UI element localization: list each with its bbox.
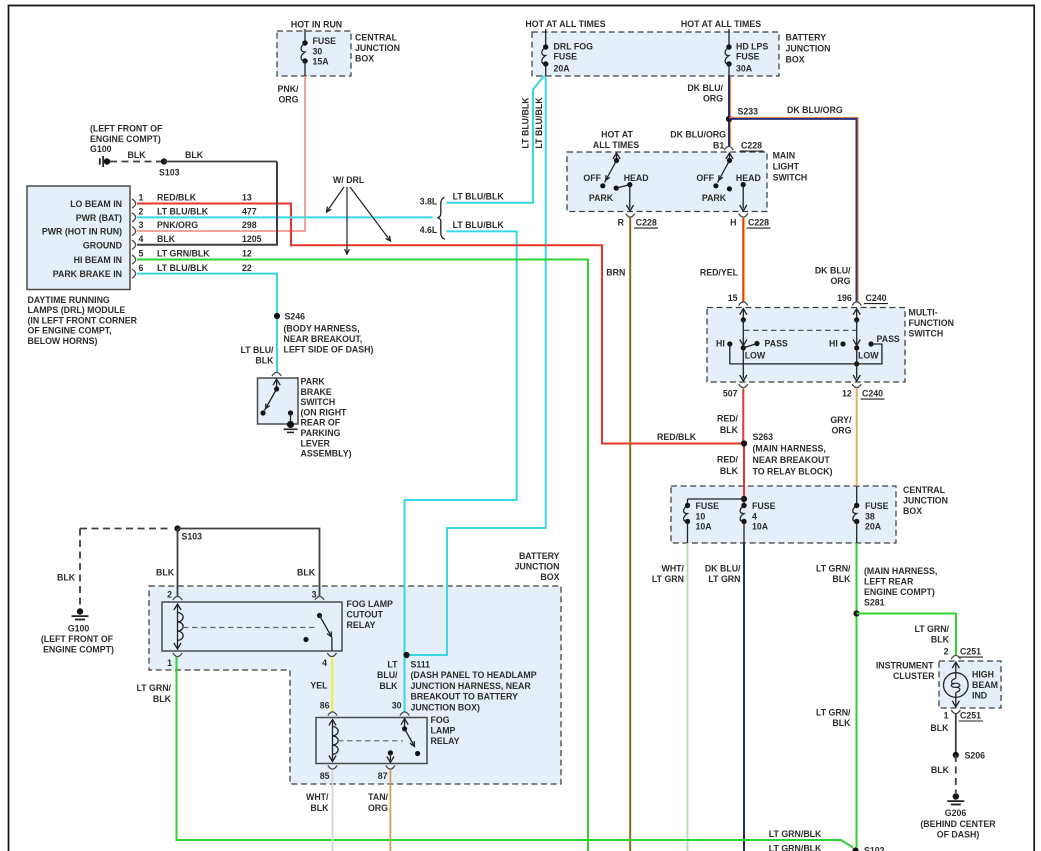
svg-text:1: 1 — [944, 710, 949, 720]
wire TAN/ORG from 87 off page — [389, 770, 391, 851]
HD LPS fuse 30A — [728, 29, 730, 47]
DRL module pin 3 PWR (HOT IN RUN) — [132, 226, 136, 235]
wire WHT/LT GRN from fuse 10 off page — [687, 543, 689, 851]
svg-text:38: 38 — [865, 511, 875, 521]
engine size brace 3.8L/4.6L — [437, 197, 445, 239]
svg-text:LT BLU/BLK: LT BLU/BLK — [453, 192, 505, 202]
DRL module box — [27, 186, 130, 290]
MLS left PARK-HEAD contacts — [614, 186, 619, 191]
svg-text:LT GRN/: LT GRN/ — [914, 624, 949, 634]
svg-text:ORG: ORG — [278, 95, 298, 105]
svg-text:OF DASH): OF DASH) — [937, 830, 980, 840]
CJB internal feed bus — [741, 496, 747, 502]
svg-text:30A: 30A — [736, 64, 753, 74]
svg-text:4: 4 — [752, 511, 757, 521]
svg-text:INSTRUMENT: INSTRUMENT — [876, 661, 934, 671]
svg-text:OFF: OFF — [696, 173, 714, 183]
svg-text:NEAR BREAKOUT: NEAR BREAKOUT — [753, 455, 831, 465]
svg-text:BRN: BRN — [606, 268, 625, 278]
svg-text:DK BLU/: DK BLU/ — [687, 83, 723, 93]
svg-text:FUSE: FUSE — [696, 501, 720, 511]
svg-text:ORG: ORG — [703, 94, 723, 104]
svg-text:GROUND: GROUND — [83, 240, 122, 250]
wire PNK/ORG from fuse 30 to DRL pin 3 — [137, 76, 305, 231]
svg-text:HIGH: HIGH — [972, 670, 994, 680]
MFS pin 15 connector — [739, 302, 748, 306]
main light switch box — [567, 152, 767, 212]
central junction box (top, fuse 30) — [277, 31, 351, 76]
svg-text:(ON RIGHT: (ON RIGHT — [301, 407, 348, 417]
svg-text:LAMPS (DRL) MODULE: LAMPS (DRL) MODULE — [28, 305, 126, 315]
svg-text:2: 2 — [167, 590, 172, 600]
svg-text:22: 22 — [242, 263, 252, 273]
battery junction box (top) — [532, 32, 779, 76]
fog lamp cutout relay coil — [177, 604, 179, 649]
svg-text:LT GRN: LT GRN — [652, 574, 684, 584]
svg-text:BLK: BLK — [720, 425, 739, 435]
svg-text:C228: C228 — [748, 218, 769, 228]
svg-text:PARKING: PARKING — [301, 428, 341, 438]
wire WHT/BLK from 85 off page — [332, 770, 334, 851]
svg-text:6: 6 — [139, 263, 144, 273]
svg-text:BLK: BLK — [720, 466, 739, 476]
wire DK BLU/LT GRN from fuse 4 off page — [743, 543, 745, 851]
svg-text:30: 30 — [392, 701, 402, 711]
svg-text:JUNCTION: JUNCTION — [903, 496, 948, 506]
svg-text:BOX: BOX — [540, 572, 559, 582]
instrument cluster box — [939, 661, 1001, 708]
node S103 (bottom) — [174, 525, 180, 531]
svg-text:507: 507 — [723, 389, 738, 399]
svg-text:S103: S103 — [182, 532, 203, 542]
svg-text:JUNCTION: JUNCTION — [355, 43, 400, 53]
svg-text:BLK: BLK — [931, 765, 950, 775]
MFS mechanical link dashed — [744, 329, 856, 331]
svg-text:GRY/: GRY/ — [830, 415, 852, 425]
svg-text:SWITCH: SWITCH — [773, 173, 808, 183]
svg-text:LT BLU/BLK: LT BLU/BLK — [521, 97, 531, 149]
wire LT BLU/BLK from DRL fog fuse - branch B to S111 — [407, 76, 546, 655]
fog lamp relay pin 85 — [328, 766, 337, 770]
multi-function switch box — [707, 308, 905, 383]
svg-text:LT BLU/BLK: LT BLU/BLK — [534, 97, 544, 149]
svg-text:LIGHT: LIGHT — [773, 162, 800, 172]
svg-text:(MAIN HARNESS,: (MAIN HARNESS, — [864, 566, 937, 576]
svg-text:BLU/: BLU/ — [377, 670, 398, 680]
svg-text:86: 86 — [320, 701, 330, 711]
svg-text:ORG: ORG — [830, 276, 850, 286]
svg-text:FOG: FOG — [431, 715, 450, 725]
svg-text:BLK: BLK — [153, 694, 172, 704]
ground G206 — [953, 793, 959, 799]
MFS left LOW contact and blade to PASS — [741, 345, 746, 350]
svg-text:BLK: BLK — [185, 150, 204, 160]
svg-text:FUSE: FUSE — [752, 501, 776, 511]
svg-text:PWR (HOT IN RUN): PWR (HOT IN RUN) — [42, 227, 122, 237]
node S263 — [741, 440, 747, 446]
MLS R output arrow — [629, 185, 631, 209]
svg-text:(DASH PANEL TO HEADLAMP: (DASH PANEL TO HEADLAMP — [411, 670, 537, 680]
svg-text:RED/BLK: RED/BLK — [657, 432, 697, 442]
svg-text:NEAR BREAKOUT,: NEAR BREAKOUT, — [284, 334, 363, 344]
svg-text:5: 5 — [139, 249, 144, 259]
svg-text:20A: 20A — [865, 522, 882, 532]
svg-text:BLK: BLK — [297, 568, 316, 578]
svg-text:PASS: PASS — [877, 334, 900, 344]
wire LT BLU/BLK circuit 22 pin 6 to park brake switch — [137, 274, 277, 373]
fog lamp relay coil — [332, 720, 334, 762]
svg-text:PARK: PARK — [301, 377, 326, 387]
svg-text:BOX: BOX — [786, 55, 805, 65]
wire YEL relay 4 to relay 86 — [331, 657, 333, 712]
svg-text:298: 298 — [242, 220, 257, 230]
fog lamp cutout relay pin 3 — [315, 596, 324, 600]
svg-text:PARK BRAKE IN: PARK BRAKE IN — [53, 269, 122, 279]
fog lamp cutout relay link dashed — [183, 627, 317, 629]
svg-text:OF ENGINE COMPT,: OF ENGINE COMPT, — [28, 326, 112, 336]
svg-text:HI BEAM IN: HI BEAM IN — [74, 255, 122, 265]
svg-text:HOT AT ALL TIMES: HOT AT ALL TIMES — [525, 19, 605, 29]
svg-text:HEAD: HEAD — [736, 173, 761, 183]
svg-text:ENGINE COMPT): ENGINE COMPT) — [43, 645, 114, 655]
svg-text:PWR (BAT): PWR (BAT) — [76, 213, 122, 223]
svg-text:PARK: PARK — [589, 193, 614, 203]
svg-text:LO BEAM IN: LO BEAM IN — [70, 199, 122, 209]
wire BLK dashed G100 to S103 — [110, 161, 161, 163]
ground G100 (bottom) — [77, 608, 83, 614]
svg-text:LT BLU/BLK: LT BLU/BLK — [157, 263, 209, 273]
svg-text:B1: B1 — [713, 141, 724, 151]
svg-text:G100: G100 — [90, 144, 112, 154]
svg-text:FUNCTION: FUNCTION — [909, 318, 954, 328]
battery junction box (bottom, L-shaped) — [149, 586, 561, 784]
svg-text:LT BLU/BLK: LT BLU/BLK — [453, 220, 505, 230]
wire RED/YEL from H C228 to MFS 15 — [744, 218, 746, 302]
svg-text:S281: S281 — [864, 598, 885, 608]
svg-text:ENGINE COMPT): ENGINE COMPT) — [90, 134, 161, 144]
svg-text:DRL FOG: DRL FOG — [554, 42, 594, 52]
svg-text:BLK: BLK — [255, 356, 274, 366]
fog lamp relay link dashed — [338, 740, 403, 742]
IC pin 2 C251 connector — [951, 655, 960, 659]
svg-text:LT GRN/: LT GRN/ — [816, 708, 851, 718]
svg-text:S103: S103 — [159, 168, 180, 178]
svg-text:LT GRN/BLK: LT GRN/BLK — [157, 249, 210, 259]
MFS pin 196 connector — [852, 302, 861, 306]
svg-text:BRAKE: BRAKE — [301, 387, 332, 397]
svg-text:LT BLU/BLK: LT BLU/BLK — [157, 207, 209, 217]
svg-text:(LEFT FRONT OF: (LEFT FRONT OF — [90, 124, 163, 134]
fog lamp relay pin 87 — [386, 766, 395, 770]
node S103 (top) — [161, 158, 167, 164]
wire BLK S103 to DRL pin 4 corner — [164, 161, 277, 163]
svg-text:C228: C228 — [741, 141, 762, 151]
svg-text:1: 1 — [139, 193, 144, 203]
wire LT BLU/BLK circuit 477 pin 2 to brace — [137, 216, 433, 218]
svg-text:SWITCH: SWITCH — [301, 397, 336, 407]
svg-text:RED/YEL: RED/YEL — [700, 268, 739, 278]
fog lamp cutout relay switch — [317, 613, 322, 618]
wire BLK circuit 1205 pin 4 to S103 — [137, 162, 277, 245]
svg-text:DK BLU/: DK BLU/ — [815, 266, 851, 276]
svg-text:3.8L: 3.8L — [420, 197, 438, 207]
svg-text:3: 3 — [312, 590, 317, 600]
fog lamp relay box — [316, 718, 427, 764]
svg-text:DK BLU/ORG: DK BLU/ORG — [670, 130, 726, 140]
fog lamp cutout relay box — [162, 602, 342, 651]
DRL module pin 4 GROUND — [132, 240, 136, 249]
fog lamp relay pin 86 — [328, 712, 337, 716]
svg-text:LT GRN/BLK: LT GRN/BLK — [769, 829, 822, 839]
fog lamp cutout relay pin 4 — [327, 653, 336, 657]
svg-text:S246: S246 — [285, 312, 306, 322]
DRL module pin 1 LO BEAM IN — [132, 199, 136, 208]
svg-text:SWITCH: SWITCH — [909, 329, 944, 339]
svg-text:WHT/: WHT/ — [662, 564, 685, 574]
node S233 — [726, 116, 732, 122]
svg-text:HOT AT: HOT AT — [601, 130, 633, 140]
svg-text:4: 4 — [322, 658, 327, 668]
svg-text:10A: 10A — [752, 522, 769, 532]
svg-text:C240: C240 — [866, 293, 887, 303]
svg-text:(BODY HARNESS,: (BODY HARNESS, — [284, 324, 360, 334]
svg-text:JUNCTION: JUNCTION — [515, 562, 560, 572]
svg-text:LOW: LOW — [745, 350, 766, 360]
DRL module pin 5 HI BEAM IN — [132, 255, 136, 264]
svg-text:LAMP: LAMP — [431, 726, 456, 736]
svg-text:TAN/: TAN/ — [368, 792, 388, 802]
svg-text:CLUSTER: CLUSTER — [893, 671, 935, 681]
svg-text:BATTERY: BATTERY — [786, 33, 827, 43]
svg-text:DK BLU/: DK BLU/ — [705, 564, 741, 574]
wire LT BLU/BLK from DRL fog fuse - branch A to 3.8L — [446, 76, 544, 203]
svg-text:HEAD: HEAD — [624, 173, 649, 183]
svg-text:10A: 10A — [696, 522, 713, 532]
MFS pin 507 connector — [739, 384, 748, 388]
svg-text:LEFT REAR: LEFT REAR — [864, 577, 914, 587]
svg-text:BREAKOUT TO BATTERY: BREAKOUT TO BATTERY — [411, 692, 518, 702]
svg-text:C228: C228 — [636, 218, 657, 228]
svg-text:G206: G206 — [945, 808, 967, 818]
svg-text:BLK: BLK — [128, 150, 147, 160]
svg-text:1: 1 — [167, 658, 172, 668]
park brake switch internals — [273, 379, 280, 385]
MFS left output arrow to 507 — [742, 348, 744, 378]
wire LT BLU/BLK 4.6L branch to S111 and fog lamp relay 30 — [405, 231, 517, 712]
DRL fog fuse 20A — [545, 29, 547, 47]
svg-text:BLK: BLK — [379, 681, 398, 691]
svg-text:13: 13 — [242, 193, 252, 203]
fuse 30 15A (central junction box) — [304, 29, 306, 43]
MLS H output arrow — [742, 185, 744, 209]
fuse 4 10A — [740, 506, 744, 522]
svg-text:85: 85 — [320, 771, 330, 781]
svg-text:LEFT SIDE OF DASH): LEFT SIDE OF DASH) — [284, 345, 374, 355]
svg-text:CENTRAL: CENTRAL — [903, 485, 946, 495]
svg-text:OFF: OFF — [583, 173, 601, 183]
svg-text:LT BLU/: LT BLU/ — [240, 345, 274, 355]
svg-text:YEL: YEL — [310, 681, 328, 691]
svg-text:1205: 1205 — [242, 234, 262, 244]
svg-text:FUSE: FUSE — [736, 52, 760, 62]
svg-text:PARK: PARK — [702, 193, 727, 203]
svg-text:W/ DRL: W/ DRL — [333, 175, 365, 185]
svg-text:ALL TIMES: ALL TIMES — [593, 140, 639, 150]
DRL module pin 6 PARK BRAKE IN — [132, 269, 136, 278]
svg-text:C240: C240 — [862, 389, 883, 399]
svg-text:FUSE: FUSE — [313, 36, 337, 46]
svg-text:PNK/: PNK/ — [277, 84, 299, 94]
svg-text:LT GRN/BLK: LT GRN/BLK — [769, 844, 822, 851]
svg-text:30: 30 — [313, 46, 323, 56]
DRL module pin 2 PWR (BAT) — [132, 213, 136, 222]
svg-text:(IN LEFT FRONT CORNER: (IN LEFT FRONT CORNER — [28, 315, 138, 325]
MFS HI-to-PASS internal link — [730, 344, 882, 364]
central junction box (middle, fuses 10/4/38) — [671, 486, 896, 543]
MFS left column feed arrow — [740, 309, 747, 315]
wire RED/BLK 507 to S263 to CJB — [742, 389, 744, 444]
svg-text:HOT IN RUN: HOT IN RUN — [291, 20, 342, 30]
svg-text:MULTI-: MULTI- — [909, 308, 938, 318]
wire LT GRN/BLK from fuse 38 to S281 and down — [856, 543, 858, 848]
svg-text:12: 12 — [242, 249, 252, 259]
MLS B1 feed (right) — [724, 146, 733, 150]
svg-text:PNK/ORG: PNK/ORG — [157, 220, 198, 230]
svg-text:REAR OF: REAR OF — [301, 418, 341, 428]
svg-text:BLK: BLK — [832, 574, 851, 584]
svg-text:JUNCTION BOX): JUNCTION BOX) — [411, 702, 480, 712]
svg-text:HOT AT ALL TIMES: HOT AT ALL TIMES — [681, 19, 761, 29]
wire BLK dashed S103 to G100 (bottom) — [80, 528, 172, 530]
svg-text:HI: HI — [716, 339, 725, 349]
svg-text:15: 15 — [728, 293, 738, 303]
svg-text:BELOW HORNS): BELOW HORNS) — [28, 336, 98, 346]
wire BLK IC to S206 — [955, 714, 957, 756]
fog lamp relay pin 30 — [400, 712, 409, 716]
IC pin 1 C251 connector — [951, 710, 960, 714]
svg-text:87: 87 — [378, 771, 388, 781]
svg-text:DAYTIME RUNNING: DAYTIME RUNNING — [28, 295, 110, 305]
svg-text:WHT/: WHT/ — [306, 792, 329, 802]
svg-text:BLK: BLK — [156, 568, 175, 578]
svg-text:BATTERY: BATTERY — [519, 551, 560, 561]
svg-text:RELAY: RELAY — [431, 736, 460, 746]
fog lamp cutout relay pin 2 — [173, 596, 182, 600]
svg-text:IND: IND — [972, 690, 987, 700]
svg-text:BOX: BOX — [903, 506, 922, 516]
svg-text:FUSE: FUSE — [865, 501, 889, 511]
svg-text:ORG: ORG — [368, 803, 388, 813]
svg-text:JUNCTION: JUNCTION — [786, 44, 831, 54]
svg-text:TO RELAY BLOCK): TO RELAY BLOCK) — [753, 467, 833, 477]
svg-text:R: R — [618, 218, 625, 228]
svg-text:BEAM: BEAM — [972, 680, 998, 690]
svg-text:20A: 20A — [554, 64, 571, 74]
node S102 bottom — [852, 847, 858, 851]
wire DK BLU/ORG S233 branch to 196 C240 — [729, 117, 858, 302]
wire LT GRN/BLK from relay pin 1 to S102 — [177, 657, 854, 848]
MFS pin 12 connector — [852, 384, 861, 388]
svg-text:G100: G100 — [68, 624, 90, 634]
svg-text:4.6L: 4.6L — [420, 225, 438, 235]
svg-text:LT GRN/: LT GRN/ — [136, 683, 171, 693]
wire BRN from R C228 down off page — [629, 218, 631, 851]
svg-text:(LEFT FRONT OF: (LEFT FRONT OF — [41, 634, 114, 644]
svg-text:477: 477 — [242, 207, 257, 217]
svg-text:RED/: RED/ — [717, 414, 739, 424]
svg-text:C251: C251 — [960, 710, 981, 720]
svg-text:RED/: RED/ — [717, 455, 739, 465]
park brake switch box — [258, 378, 299, 424]
svg-text:2: 2 — [944, 647, 949, 657]
svg-text:12: 12 — [842, 389, 852, 399]
svg-text:DK BLU/ORG: DK BLU/ORG — [787, 105, 843, 115]
svg-text:4: 4 — [139, 234, 144, 244]
svg-text:PASS: PASS — [765, 339, 788, 349]
svg-text:S111: S111 — [411, 660, 431, 670]
svg-text:S263: S263 — [753, 432, 774, 442]
fog lamp cutout relay pin 1 — [173, 653, 182, 657]
svg-text:ASSEMBLY): ASSEMBLY) — [301, 449, 352, 459]
svg-text:FUSE: FUSE — [554, 52, 578, 62]
park brake switch connector cup — [272, 372, 281, 376]
fuse 38 20A — [853, 506, 857, 522]
svg-text:BOX: BOX — [355, 54, 374, 64]
svg-text:S102: S102 — [864, 846, 885, 851]
svg-text:3: 3 — [139, 220, 144, 230]
svg-text:BLK: BLK — [57, 573, 76, 583]
svg-text:BLK: BLK — [832, 718, 851, 728]
svg-text:CENTRAL: CENTRAL — [355, 33, 398, 43]
svg-text:LEVER: LEVER — [301, 438, 331, 448]
svg-text:FOG LAMP: FOG LAMP — [347, 599, 394, 609]
svg-text:15A: 15A — [313, 57, 330, 67]
wire LT GRN/BLK S281 branch to instrument cluster — [857, 614, 957, 656]
wire LT GRN/BLK circuit 12 pin 5 down off page — [137, 260, 588, 851]
node S281 — [853, 610, 859, 616]
wire GRY/ORG from 12 C240 to fuse 38 — [856, 389, 858, 487]
svg-text:C251: C251 — [960, 647, 981, 657]
node S246 — [274, 313, 280, 319]
svg-text:H: H — [730, 218, 736, 228]
svg-text:BLK: BLK — [310, 803, 329, 813]
fog lamp relay switch — [401, 719, 408, 725]
svg-text:RELAY: RELAY — [347, 620, 376, 630]
svg-text:BLK: BLK — [157, 234, 176, 244]
svg-text:LT GRN/: LT GRN/ — [816, 564, 851, 574]
svg-text:LT GRN: LT GRN — [708, 574, 740, 584]
svg-text:S233: S233 — [738, 107, 759, 117]
svg-text:BLK: BLK — [930, 723, 949, 733]
svg-text:ORG: ORG — [831, 426, 851, 436]
svg-text:HD LPS: HD LPS — [736, 42, 768, 52]
wire BLK S103 to relay pins 2 and 3 — [177, 529, 179, 597]
park brake internal ground — [287, 421, 294, 428]
high beam indicator lamp — [952, 662, 959, 668]
svg-text:CUTOUT: CUTOUT — [347, 610, 384, 620]
svg-text:(MAIN HARNESS,: (MAIN HARNESS, — [753, 444, 826, 454]
node S206 — [953, 752, 959, 758]
svg-text:LT: LT — [387, 660, 398, 670]
svg-text:(BEHIND CENTER: (BEHIND CENTER — [920, 819, 996, 829]
svg-text:MAIN: MAIN — [773, 151, 795, 161]
node S111 — [403, 652, 409, 658]
fuse 10 10A — [684, 506, 688, 522]
wire DK BLU/ORG fuse to S233 to B1 — [730, 76, 732, 147]
wire BLK dashed S206 to G206 — [955, 755, 957, 793]
MLS left switch blade — [605, 161, 617, 183]
svg-text:S206: S206 — [965, 751, 986, 761]
